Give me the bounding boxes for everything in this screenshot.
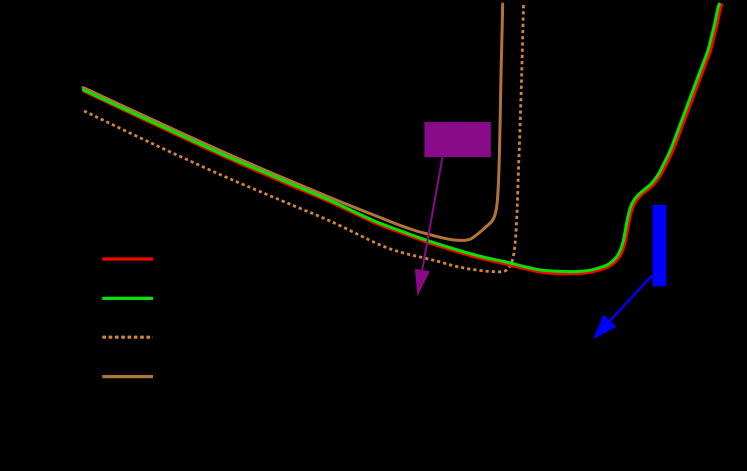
annotation arrow: blue shaft (610, 276, 652, 321)
curve: red (84, 5, 722, 274)
annotation box: purple rectangle (424, 122, 490, 157)
legend line sample: dotted tan (102, 336, 153, 339)
annotation arrow: blue head (593, 315, 617, 339)
legend line sample: red (102, 257, 153, 260)
legend line sample: green (102, 297, 153, 300)
annotation arrow: purple head (415, 269, 430, 297)
curve: solid tan (83, 4, 503, 240)
annotation box: blue rectangle (652, 205, 666, 286)
annotation arrow: purple shaft (422, 157, 442, 270)
curve: dotted tan (dissociation curve, dotted linestyle) (84, 4, 524, 272)
legend line sample: solid tan (102, 375, 153, 378)
curve: green (84, 4, 720, 272)
